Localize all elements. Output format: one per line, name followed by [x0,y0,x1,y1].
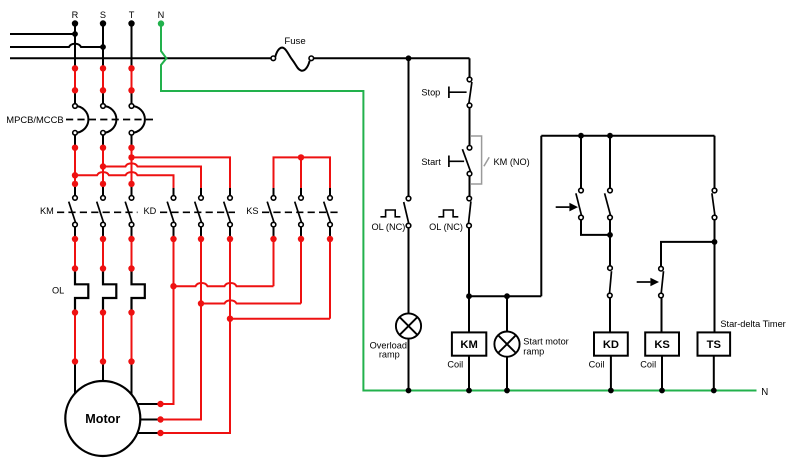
node KM coil junction [466,293,472,299]
svg-text:KS: KS [246,206,258,216]
phase T vertical [131,24,133,196]
node N-KD [608,388,614,394]
KM coil box [452,332,486,355]
red tap from T to KD pole3 [132,157,231,188]
node N-lamp1 [406,388,412,394]
svg-text:Coil: Coil [640,360,656,370]
OL (NC) contact 2 [467,196,472,228]
MPCB/MCCB breaker T pole [132,106,145,133]
red segments OL to motor leads [75,313,132,362]
KD/KS pole top black stubs [174,188,331,196]
wire start to OL2 [469,176,471,196]
KD coil box [594,332,628,355]
svg-text:Fuse: Fuse [284,36,305,47]
svg-text:KM: KM [40,206,54,216]
node rail-KM aux [578,133,584,139]
node S top [100,20,106,26]
KS pole1 red drop [273,239,275,286]
arrow actuator 1 [556,206,570,208]
wire KS coil to N [661,356,663,391]
KS pole 2 contact [295,196,304,227]
svg-text:S: S [100,10,106,20]
KM pole 1 contact [69,196,78,227]
delta link A: KD1 to KS1 (hops over KD2,KD3) [174,283,274,286]
fuse F1 [275,48,309,71]
wire stop to start [469,108,471,146]
red segments KM poles to OL heaters [75,239,132,269]
OL symbol pulse 1 [380,210,400,217]
node KD mid junction [607,232,613,238]
KD pole 2 contact [195,196,204,227]
section2 top rail [541,135,714,137]
MPCB/MCCB dashed linkage [66,119,153,121]
KD seal contact [605,188,613,220]
KM aux branch wire [580,136,582,189]
motor stub 1 [138,403,161,405]
wire OL2 down to KM coil [468,228,470,333]
KS pole2 red drop [300,239,302,304]
MPCB/MCCB breaker R pole [75,106,88,133]
OL symbol pulse 2 [438,210,458,217]
delta link C: KD3 to KS3 [230,318,330,320]
TS timer NO contact [712,188,717,220]
motor top leads black [75,362,132,396]
wire between contacts [609,220,611,266]
OL (NC) contact 1 [404,196,411,228]
KD contactor dashed linkage [160,211,235,213]
motor stub 3 [138,432,161,434]
red junction dots [72,65,333,436]
supply line L2 (hops over R) [10,44,103,47]
stop button NC contact [467,77,472,108]
delta link B: KD2 to KS2 (hop over KD3) [201,300,301,303]
wire KM aux to junction [581,220,610,235]
wire to KD coil [609,298,611,333]
node lamp2 junction [504,293,510,299]
node L2-S [100,44,106,50]
svg-text:ramp: ramp [379,349,400,359]
KS pole 3 contact [324,196,333,227]
node N top (green) [158,20,164,26]
svg-text:KS: KS [654,339,670,351]
KD pole3 red drop to motor stub3 [161,239,231,433]
node N-KM [466,388,472,394]
lamp start motor ramp [494,332,519,357]
TS branch wire upper [714,136,716,189]
svg-text:N: N [158,10,165,20]
svg-text:TS: TS [707,339,722,351]
KS pole 1 contact [267,196,276,227]
svg-text:Start: Start [421,157,441,167]
MPCB/MCCB breaker S pole [103,106,116,133]
KS coil box [645,332,679,355]
svg-text:KM (NO): KM (NO) [494,157,530,167]
phase S vertical [102,24,104,196]
KS timed NO contact (arrow) [659,266,664,297]
svg-text:MPCB/MCCB: MPCB/MCCB [6,114,63,125]
svg-text:T: T [129,10,135,20]
neutral N wire (green) [161,24,757,391]
wire lamp to N [408,339,410,391]
OL heater S [103,269,116,313]
stop actuator [449,87,467,99]
KM pole 3 contact [125,196,134,227]
svg-text:Start motor: Start motor [523,337,568,347]
node N-KS [659,388,665,394]
node L3 branch [406,55,412,61]
svg-text:OL (NC): OL (NC) [371,222,405,232]
svg-text:Coil: Coil [447,360,463,370]
phase R vertical [74,24,76,196]
svg-text:KM: KM [460,339,477,351]
node TS junction [712,239,718,245]
wire to KS coil [661,298,663,333]
timer NC contact to KD [608,266,613,298]
phase T red segments [131,68,133,184]
section2 riser [540,136,542,297]
svg-text:R: R [72,10,79,20]
start motor ramp lamp branch [506,296,508,331]
motor stub 2 [140,419,160,421]
KD pole2 red drop to motor stub2 [161,239,202,420]
red tap from R to KD pole1 (hops over S and T) [75,172,174,188]
node rail-KD [607,133,613,139]
svg-text:ramp: ramp [523,347,544,357]
KS pole3 red drop [329,239,331,319]
wire junction to KS timed contact [661,242,715,267]
KS contactor dashed linkage [262,211,339,213]
node T top [128,20,134,26]
KD branch wire upper [609,136,611,189]
node N-TS [711,388,717,394]
red KS star bridge [274,157,331,188]
svg-text:Motor: Motor [85,412,120,426]
wire TS contact down to TS coil [714,220,716,333]
svg-text:OL: OL [52,286,64,296]
lamp overload ramp [396,313,421,338]
wire TS box to N [713,356,715,391]
phase S red segments [102,68,104,184]
supply line L1 [10,33,75,35]
motor M1 [65,381,140,456]
stop/start branch wire from L3 [469,58,471,77]
TS timer box [698,332,731,355]
KM aux NO contact (timer arrow) [576,188,583,220]
svg-text:Coil: Coil [589,360,605,370]
svg-text:OL (NC): OL (NC) [429,222,463,232]
OL heater R [75,269,88,313]
wire KD coil to N [610,356,612,391]
supply line L3 right of fuse [313,57,469,59]
KM contactor dashed linkage [57,211,138,213]
start actuator [449,156,464,168]
overload-ramp branch wire [408,58,410,196]
wire lamp2 to N [506,357,508,391]
svg-text:N: N [761,387,768,398]
phase R red segments [74,68,76,184]
svg-text:KD: KD [144,206,157,216]
wire to overload lamp [408,228,410,314]
node L1-R [72,31,78,37]
KD pole1 red drop to motor stub1 [161,239,174,404]
red tap from S to KD pole2 (hop over T) [103,163,201,188]
junction wire to lamp2 and section2 riser [469,295,541,297]
svg-text:Stop: Stop [421,88,440,98]
wire KM coil to N [468,356,470,391]
OL heater T [132,269,145,313]
black stubs below all contacts [75,227,330,239]
svg-text:KD: KD [603,339,619,351]
KM (NO) bracket [471,136,482,184]
KD pole 3 contact [224,196,233,227]
KM pole 2 contact [97,196,106,227]
node N-lamp2 [504,388,510,394]
start button NO contact [462,146,471,177]
svg-text:Star-delta Timer: Star-delta Timer [720,319,785,329]
arrow actuator 2 [637,281,651,283]
node R top [72,20,78,26]
supply line L3 left of fuse [10,57,271,59]
KD pole 1 contact [167,196,176,227]
